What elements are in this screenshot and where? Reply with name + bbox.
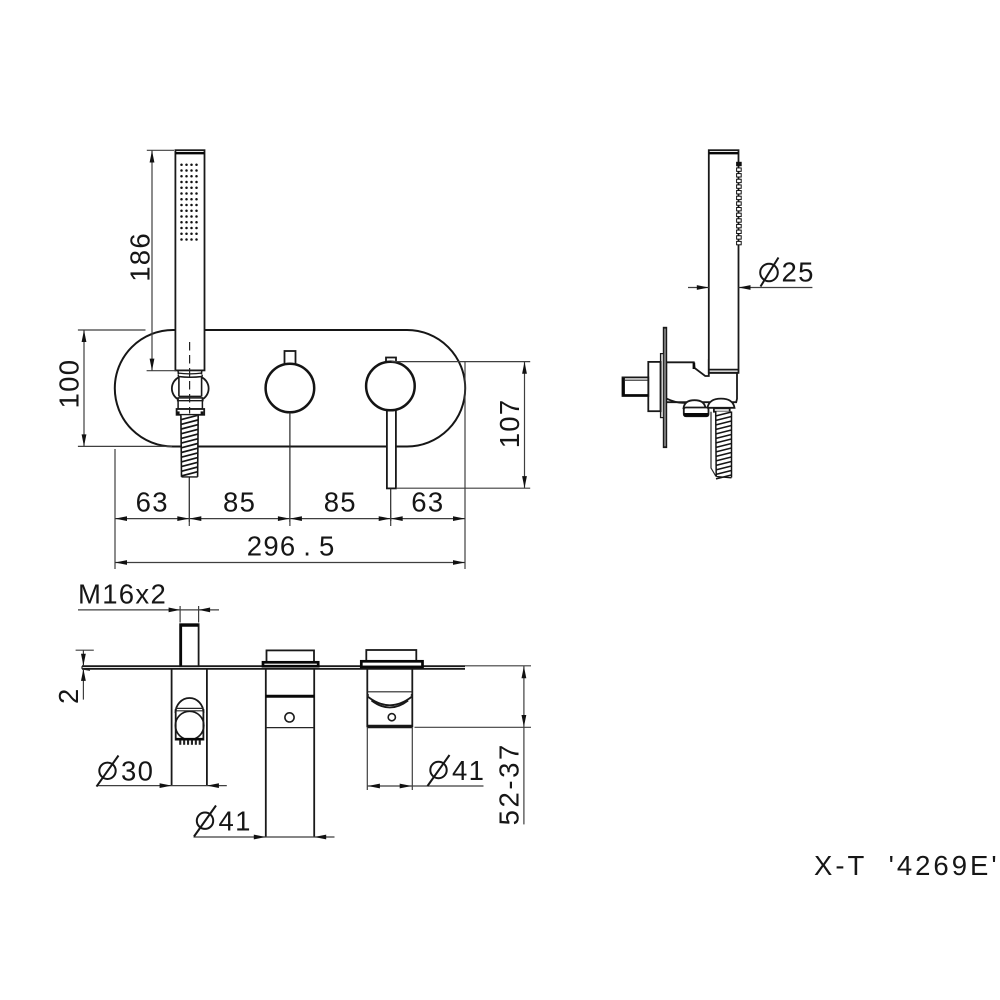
middle valve screw hole [285,713,294,722]
middle valve flange [263,662,318,666]
hose coupling flange [177,409,205,415]
svg-text:63: 63 [136,487,169,518]
hose connector (side) [714,408,730,411]
mounting plate (section, edge-on) [82,666,465,670]
dimension 107 (right) [392,362,531,489]
svg-text:25: 25 [782,257,815,288]
dimension chain 63 / 85 / 85 / 63 [115,478,465,526]
right extension line to bottom dims [464,362,466,569]
right valve body (section, short) [367,669,412,727]
dimension diameter 41 (right) [367,755,485,788]
middle knob centerline [289,413,291,523]
dimension diameter 25 [688,257,815,290]
socket ball [175,711,203,739]
holder clip bar [684,408,709,417]
mixer wall plate (front view, pill shape) [115,330,465,447]
hose centerline below [188,478,190,523]
extension line plate right to 52-37 [465,665,531,667]
wall escutcheon plate (side, thin vertical) [664,328,667,448]
side nozzle squares [737,162,742,244]
escutcheon backing disc (side) [661,354,664,418]
extension line right valve bottom to 52-37 [415,726,532,728]
handset neck [178,370,203,374]
svg-text:2: 2 [53,687,84,704]
socket cup sides [176,709,204,741]
svg-text:100: 100 [54,359,85,409]
dimension diameter 30 [97,756,227,789]
tube bottom cap [709,370,739,373]
holder knuckle bumps [684,399,735,409]
dimension 52-37 [494,666,527,826]
M16x2 threaded stub [180,624,199,666]
svg-text:85: 85 [223,487,256,518]
product code text [814,850,1000,881]
right knob tab [386,358,396,363]
dimension 100 (vertical, left) [54,330,87,446]
dimension 2 (plate thickness) [53,650,94,704]
middle valve body (section) [266,669,314,837]
right valve flange [361,661,422,667]
wall supply stub pipe [623,377,649,396]
middle knob tab [285,351,296,365]
handset top cap line [176,152,205,154]
svg-text:63: 63 [411,487,444,518]
extension line for dim 100 (top) [78,329,146,331]
handset spray face dots [180,164,198,241]
right knob (front) [366,362,415,411]
middle knob (front) [266,364,315,413]
handset holder ball (front) [172,375,209,400]
mounting nut (side) [648,362,660,411]
dimension M16x2 [78,578,219,622]
SECTION VIEW GROUP [53,578,531,839]
shower holder socket (section) [172,669,207,786]
flexible hose (front view, spiral) [181,415,198,477]
right valve cartridge cap [366,650,416,661]
handset tube (side) [709,150,739,373]
tube top cap line [709,152,738,154]
middle valve cartridge cap [267,650,315,662]
hand shower handset body (front) [175,150,204,370]
svg-text:41: 41 [452,755,485,786]
SIDE VIEW GROUP [623,150,815,479]
socket serrated bottom [176,739,204,745]
right valve screw hole [388,714,395,721]
svg-text:186: 186 [124,232,155,282]
shower holder body (side) [666,360,737,403]
hose inner sleeve line [711,412,716,477]
FRONT VIEW GROUP [54,150,531,569]
handset axis dashed centerline [189,342,191,414]
socket dome [176,698,204,713]
svg-text:X-T '4269E': X-T '4269E' [814,850,1000,881]
holder lower block [177,398,204,409]
left extension line to bottom dims [114,449,116,569]
right knob centerline below lever [390,488,392,521]
svg-text:296 . 5: 296 . 5 [247,531,336,562]
dimension diameter 41 (middle) [194,806,335,840]
extension line left of plate for dim 100 (bottom) [78,445,172,447]
dimension 296.5 overall [115,531,465,565]
right valve crescent recess [368,694,411,708]
svg-text:107: 107 [494,399,525,449]
svg-text:30: 30 [121,756,154,787]
svg-text:41: 41 [219,806,252,837]
dimension 186 (handset height) [124,150,176,370]
flexible hose (side view, spiral) [716,412,732,479]
right valve extension lines down [367,727,412,790]
svg-text:52-37: 52-37 [494,742,525,825]
right knob lever [387,400,396,488]
svg-text:M16x2: M16x2 [78,578,167,609]
svg-text:85: 85 [324,487,357,518]
